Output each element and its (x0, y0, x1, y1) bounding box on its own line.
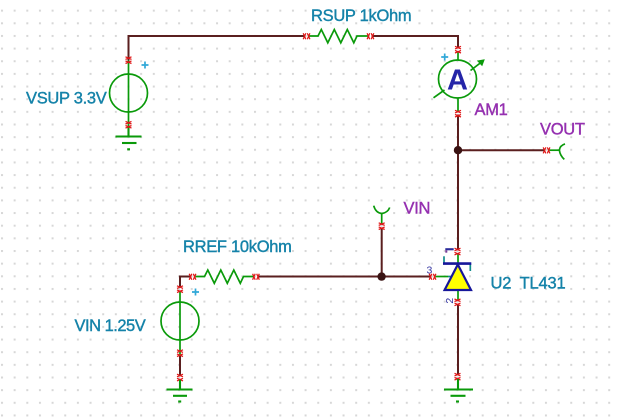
cathode bar bend left (443, 256, 445, 263)
ground below VSUP (116, 126, 142, 149)
label RREF 10kOhm (183, 238, 292, 256)
svg-text:2: 2 (444, 298, 456, 304)
pin marker U2 pin 3 (429, 274, 436, 280)
pin 3 lead (436, 276, 449, 278)
resistor RREF (196, 270, 255, 283)
wire VIN branch (381, 228, 383, 277)
ground below VIN 1.25V (167, 380, 193, 402)
pin marker VSUP top (126, 57, 132, 64)
node junction at VOUT (454, 146, 462, 154)
pin marker RSUP right (367, 33, 374, 39)
svg-text:U2 TL431: U2 TL431 (491, 274, 566, 292)
voltage source VIN 1.25V (161, 292, 199, 356)
svg-text:VOUT: VOUT (540, 120, 585, 138)
cathode bar bend right (469, 264, 471, 272)
wire U2 pin 2 to ground (457, 304, 459, 374)
wire RSUP right to AM1 top (372, 36, 459, 48)
svg-text:VSUP 3.3V: VSUP 3.3V (26, 89, 107, 107)
svg-text:VIN: VIN (404, 200, 431, 218)
wire junction to U2 pin 1 (457, 150, 459, 249)
ammeter AM1 (434, 51, 485, 111)
polarity + of VSUP (142, 62, 149, 69)
pin number 3 (427, 265, 433, 277)
pin marker RREF right (253, 274, 260, 280)
svg-text:AM1: AM1 (475, 101, 508, 119)
label VIN 1.25V (75, 317, 146, 335)
pin 2 lead (457, 290, 459, 300)
pin marker U2 pin 2 (455, 299, 461, 306)
label AM1 (475, 101, 508, 119)
label RSUP 1kOhm (311, 7, 411, 25)
pin marker AM1 top (455, 46, 461, 53)
voltage source VSUP (110, 61, 148, 127)
cathode bar (443, 262, 471, 265)
label VSUP 3.3V (26, 89, 107, 107)
pin number 1 (445, 248, 453, 253)
wire VOUT branch (458, 149, 545, 151)
pin number 2 (444, 298, 456, 304)
svg-text:A: A (447, 65, 468, 97)
svg-text:RSUP 1kOhm: RSUP 1kOhm (311, 7, 411, 25)
node junction at VIN (377, 272, 385, 280)
svg-text:RREF 10kOhm: RREF 10kOhm (183, 238, 292, 256)
polarity + of AM1 (441, 54, 448, 61)
label VIN (404, 200, 431, 218)
pin marker VIN1.25 top (177, 286, 183, 293)
pin marker VIN (379, 223, 385, 230)
pin 1 lead (457, 254, 459, 264)
wire RREF right to U2 pin 3 (259, 276, 431, 278)
pin marker VSUP bottom / ground (126, 121, 132, 128)
terminal VOUT (550, 144, 566, 160)
shunt regulator U2 TL431 (427, 248, 472, 303)
triangle body (445, 265, 471, 291)
pin marker VOUT (543, 147, 550, 153)
wire AM1 bottom to node VOUT junction (457, 115, 459, 151)
pin marker VIN1.25 bottom (177, 350, 183, 357)
label U2 TL431 (491, 274, 566, 292)
pin marker RSUP left (303, 33, 310, 39)
resistor RSUP (309, 30, 369, 43)
wire VIN1.25 bottom to ground (179, 355, 181, 375)
pin 3 lead inner teal (448, 276, 457, 278)
wire VSUP top to RSUP left (129, 36, 306, 61)
pin marker U2 pin 1 (455, 248, 461, 255)
pin marker AM1 bottom (455, 110, 461, 117)
polarity + of VIN 1.25V (192, 289, 199, 296)
label VOUT (540, 120, 585, 138)
pin marker RREF left (189, 274, 196, 280)
pin marker ground right (455, 373, 461, 380)
wire VIN1.25 top to RREF left (180, 277, 191, 287)
pin marker ground left (177, 374, 183, 381)
ground below U2 (444, 379, 473, 402)
svg-text:VIN 1.25V: VIN 1.25V (75, 317, 146, 335)
terminal VIN (374, 206, 390, 224)
